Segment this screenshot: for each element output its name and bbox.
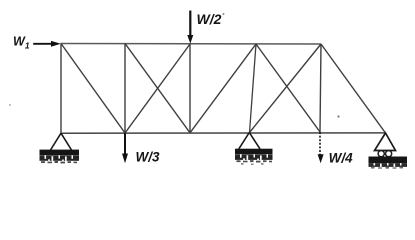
bottom chord — [61, 132, 386, 134]
ground block middle — [235, 149, 273, 154]
diagonal member panel 4 descending — [256, 44, 320, 132]
svg-text:W/2: W/2 — [197, 11, 222, 27]
end diagonal member to right support — [321, 44, 386, 133]
load W1 arrow — [33, 41, 61, 47]
svg-text:W/4: W/4 — [329, 151, 353, 166]
vertical member above middle support — [250, 44, 257, 133]
vertical member left end — [60, 44, 62, 134]
ground block right — [369, 157, 408, 164]
ground hatching left — [40, 155, 80, 163]
pinned support left triangle — [51, 133, 72, 150]
load W/3 arrow — [122, 133, 128, 163]
vertical member x=125 — [124, 44, 126, 134]
ground hatching middle — [235, 154, 273, 165]
vertical member x=320 — [320, 44, 321, 132]
roller support right triangle — [375, 133, 396, 151]
diagonal member panel 1 — [61, 44, 125, 134]
ground block left — [40, 150, 80, 156]
diagonal member panel 4 ascending — [250, 44, 322, 133]
speckle dot left margin — [9, 104, 11, 106]
speckle dot above bottom chord right — [337, 115, 339, 117]
diagonal member panel 2 descending — [125, 44, 190, 133]
top chord — [61, 43, 322, 46]
roller right circle — [386, 151, 392, 157]
load W/2 arrow — [187, 11, 193, 44]
diagonal member panel 3 ascending — [190, 44, 256, 133]
roller left circle — [378, 151, 384, 157]
svg-text:W/3: W/3 — [136, 150, 160, 165]
pinned support middle triangle — [239, 133, 260, 149]
diagonal member panel 2 ascending — [125, 44, 190, 133]
vertical member x=190 — [189, 44, 191, 133]
ground hatching right — [369, 163, 408, 169]
load W/4 arrow — [318, 132, 324, 163]
speckle dot near W/2 label — [223, 13, 225, 15]
